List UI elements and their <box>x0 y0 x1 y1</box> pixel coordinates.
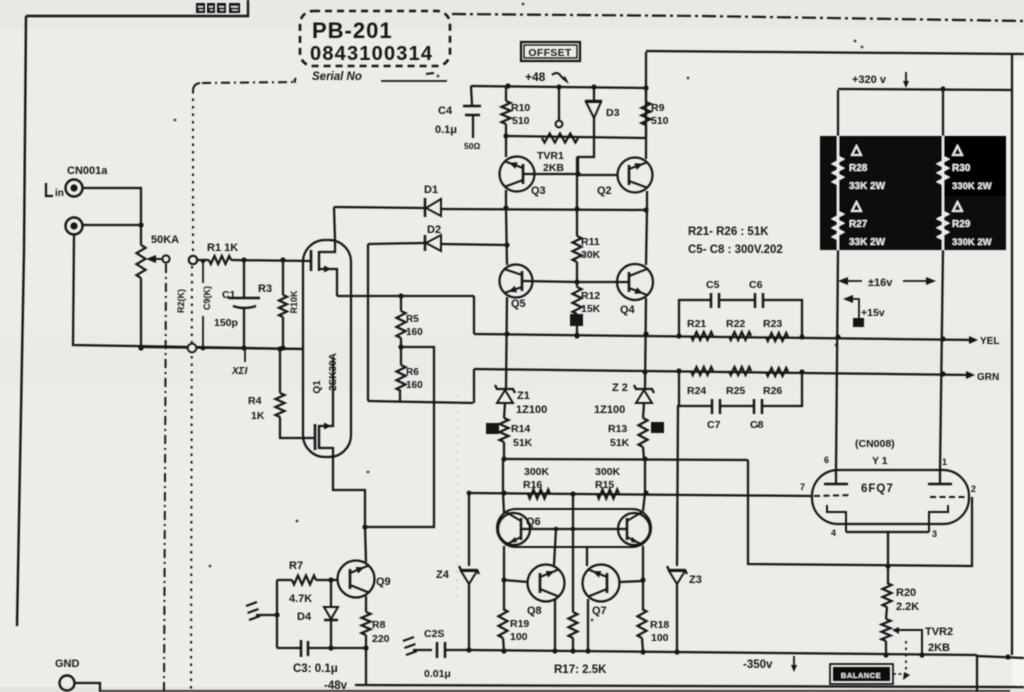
svg-text:Q9: Q9 <box>376 576 391 588</box>
svg-text:33K 2W: 33K 2W <box>849 181 886 192</box>
svg-text:R15: R15 <box>595 479 614 491</box>
zener Z3 <box>667 405 702 655</box>
zener Z2 <box>594 382 654 418</box>
wire input jacks to pot <box>83 188 144 245</box>
resistor R12 15K <box>570 287 601 337</box>
diode D2 <box>368 224 510 251</box>
label -48V <box>324 680 348 692</box>
wire input ground return <box>73 235 304 349</box>
wire Q2 emitter <box>643 191 648 213</box>
svg-text:Y 1: Y 1 <box>872 455 888 467</box>
label R21-R26 <box>688 226 783 256</box>
svg-text:R23: R23 <box>763 318 782 330</box>
label ±16v <box>838 277 936 289</box>
resistor R19 100 <box>499 580 530 654</box>
wire top dash-dot boundary <box>452 14 1024 21</box>
svg-text:Z3: Z3 <box>689 574 702 586</box>
svg-text:3: 3 <box>932 529 937 539</box>
svg-text:4: 4 <box>831 528 836 538</box>
wire tube plate left <box>836 250 838 470</box>
resistor R18 100 <box>638 581 670 655</box>
wire R28 branch <box>837 90 839 250</box>
high-voltage resistor block <box>820 136 1006 250</box>
wire TVR2 wiper dotted <box>903 641 910 680</box>
node pot wiper (open circle on signal wire) <box>189 256 209 264</box>
svg-text:R29: R29 <box>952 219 971 230</box>
wire Q6 base rail drop <box>554 527 559 565</box>
svg-text:C2S: C2S <box>424 628 444 640</box>
svg-text:TVR2: TVR2 <box>925 626 953 638</box>
resistor R11 30K <box>573 236 601 287</box>
wire Q4 emitter to Z2 <box>642 298 648 388</box>
svg-text:Q1: Q1 <box>312 380 323 394</box>
wire tube plate right <box>940 250 943 470</box>
svg-text:300K: 300K <box>595 466 621 478</box>
transistor Q7 <box>583 565 620 618</box>
shield boundary (dash-dot, pot wiper) <box>191 78 296 692</box>
svg-text:330K 2W: 330K 2W <box>952 237 992 248</box>
svg-text:R7: R7 <box>289 560 303 572</box>
svg-text:R20: R20 <box>896 587 916 599</box>
resistor R22 <box>726 318 751 340</box>
wire Q8 emitter <box>552 599 557 654</box>
FET Q1 2SK30A (dual) <box>303 240 351 457</box>
resistor R27 33K 2W <box>834 202 886 248</box>
svg-text:R25: R25 <box>726 385 745 397</box>
svg-text:YEL: YEL <box>980 336 999 347</box>
wire divider drop <box>501 459 506 513</box>
svg-text:R6: R6 <box>406 367 419 378</box>
svg-text:C8: C8 <box>750 419 764 431</box>
svg-text:C9(K): C9(K) <box>202 286 212 310</box>
svg-text:Q3: Q3 <box>531 185 546 197</box>
svg-text:50KA: 50KA <box>151 234 179 246</box>
wire Q5 emitter to Z1 <box>504 297 509 388</box>
connector CN001a <box>46 165 108 235</box>
svg-text:510: 510 <box>512 115 530 127</box>
wire Q4 base <box>577 281 628 283</box>
resistor R9 510 <box>642 88 669 138</box>
wire D3 to bases <box>524 138 618 177</box>
svg-text:R13: R13 <box>608 423 627 435</box>
svg-text:D3: D3 <box>606 107 620 119</box>
svg-text:XΣI: XΣI <box>231 366 248 377</box>
wire R30 branch <box>942 90 944 250</box>
wire emitter rail <box>334 207 647 210</box>
svg-text:CN001a: CN001a <box>67 165 108 177</box>
svg-text:2: 2 <box>971 484 976 494</box>
svg-text:C5: C5 <box>706 279 720 291</box>
resistor R28 33K 2W <box>834 146 886 192</box>
label OFFSET box <box>521 42 580 61</box>
wire R6 bottom / GRN tie <box>368 369 474 403</box>
capacitor C5 <box>679 279 755 336</box>
resistor R4 1K <box>248 346 315 438</box>
svg-text:R9: R9 <box>651 102 665 114</box>
wire Q6 right emitter <box>640 546 645 583</box>
svg-text:6: 6 <box>824 455 829 465</box>
capacitor C3 0.1u <box>277 640 366 675</box>
capacitor C7 <box>679 371 754 431</box>
resistor R10 510 <box>502 86 531 136</box>
svg-text:Z 2: Z 2 <box>612 382 628 394</box>
svg-text:in: in <box>55 188 64 199</box>
resistor R30 330K 2W <box>939 146 992 192</box>
wire +320V rail <box>838 86 1012 91</box>
wire -48V rail <box>355 685 1024 687</box>
wire Q5 collector <box>506 208 507 265</box>
wire C3 node to -48V rail <box>365 648 367 686</box>
wire Q1 upper drain to emitter rail <box>334 207 335 240</box>
svg-text:510: 510 <box>651 115 669 127</box>
svg-text:TVR1: TVR1 <box>537 150 564 162</box>
wire tube cathodes <box>846 532 929 583</box>
svg-text:R21- R26 : 51K: R21- R26 : 51K <box>688 226 769 238</box>
svg-text:2KB: 2KB <box>928 642 950 654</box>
dual transistor Q6 <box>497 509 651 547</box>
resistor R16 300K <box>523 466 550 499</box>
svg-text:GRN: GRN <box>977 372 999 383</box>
wire Q8 base <box>504 580 528 582</box>
resistor R13 51K <box>608 418 664 462</box>
svg-text:C6: C6 <box>749 279 763 291</box>
svg-text:R21: R21 <box>687 318 706 330</box>
svg-text:R4: R4 <box>248 395 262 407</box>
resistor R14 51K <box>486 418 533 462</box>
svg-text:300K: 300K <box>524 466 550 478</box>
wire R17 drop <box>570 491 575 612</box>
svg-text:R24: R24 <box>687 385 706 397</box>
svg-text:150p: 150p <box>214 317 238 329</box>
svg-text:R10K: R10K <box>289 290 299 314</box>
wire R14/R13 node <box>504 459 748 460</box>
svg-text:R17: 2.5K: R17: 2.5K <box>554 664 607 676</box>
capacitor C9 (rotated label) <box>202 286 212 310</box>
wire top line <box>646 51 1024 54</box>
svg-text:51K: 51K <box>513 437 533 449</box>
transistor Q4 <box>617 264 653 316</box>
crossed-out stub <box>231 349 248 377</box>
svg-text:Z1: Z1 <box>517 390 530 402</box>
svg-text:1Z100: 1Z100 <box>594 404 625 416</box>
capacitor C8 <box>750 371 802 431</box>
wire bias divider <box>574 157 579 236</box>
wire Q7 emitter <box>585 599 590 654</box>
svg-text:50Ω: 50Ω <box>464 141 480 151</box>
svg-text:R2(K): R2(K) <box>176 289 186 313</box>
test point +15v <box>843 295 885 327</box>
wire Q1 lower drain loop to R5/R6 tap <box>333 347 434 530</box>
svg-text:Q4: Q4 <box>620 304 636 316</box>
connector GND <box>55 658 100 692</box>
capacitor C1 150p <box>214 257 260 350</box>
wire right edge drop <box>1005 54 1012 660</box>
svg-text:Q8: Q8 <box>527 605 542 617</box>
svg-text:0.01μ: 0.01μ <box>424 668 451 680</box>
svg-text:R14: R14 <box>511 423 530 435</box>
svg-text:+48: +48 <box>525 70 546 84</box>
svg-text:R30: R30 <box>952 163 971 174</box>
wire to tube grid 7 <box>469 493 812 496</box>
svg-text:7: 7 <box>800 482 805 492</box>
svg-text:+320 v: +320 v <box>852 74 887 86</box>
svg-text:C1: C1 <box>222 289 236 301</box>
svg-text:GND: GND <box>55 658 80 670</box>
svg-text:R26: R26 <box>763 385 782 397</box>
resistor R20 2.2K <box>883 583 920 619</box>
tube Y1 6FQ7 <box>800 438 976 539</box>
svg-text:2.2K: 2.2K <box>896 601 919 613</box>
resistor R21 <box>687 318 713 340</box>
svg-text:R5: R5 <box>406 314 419 325</box>
transistor Q2 <box>597 158 653 198</box>
svg-text:6FQ7: 6FQ7 <box>861 483 894 495</box>
svg-text:Q5: Q5 <box>511 298 526 310</box>
svg-text:0843100314: 0843100314 <box>310 43 433 65</box>
wire input low rail <box>141 344 304 352</box>
zener Z1 <box>495 385 547 418</box>
wire Q1 source drop <box>473 296 475 334</box>
wire +48V rail <box>471 83 646 89</box>
svg-text:PB-201: PB-201 <box>312 18 393 43</box>
svg-text:D2: D2 <box>427 224 441 236</box>
svg-text:R10: R10 <box>511 102 530 114</box>
wire YEL <box>474 333 975 341</box>
svg-text:100: 100 <box>510 631 528 643</box>
svg-text:100: 100 <box>651 632 669 644</box>
diode D3 <box>585 87 620 137</box>
chassis ground (C2) <box>403 637 432 655</box>
wire Q7 base <box>620 581 643 582</box>
trimmer TVR2 2KB <box>882 619 954 658</box>
transistor Q3 <box>500 157 546 198</box>
net GRN <box>966 371 999 383</box>
svg-text:Q2: Q2 <box>597 185 612 197</box>
svg-text:160: 160 <box>406 327 423 338</box>
wire Q3 emitter <box>503 190 508 211</box>
svg-text:4.7K: 4.7K <box>289 593 312 605</box>
svg-text:R11: R11 <box>581 236 600 248</box>
svg-text:R22: R22 <box>726 318 745 330</box>
resistor R25 <box>726 367 751 397</box>
wire rail step <box>977 655 1024 692</box>
wire Q9 collector <box>365 527 366 562</box>
svg-text:30K: 30K <box>581 249 601 261</box>
svg-text:D4: D4 <box>297 611 312 623</box>
svg-text:1K: 1K <box>251 410 265 422</box>
label BALANCE <box>830 664 903 684</box>
resistor R29 330K 2W <box>939 202 992 248</box>
svg-text:R27: R27 <box>849 219 868 230</box>
svg-text:Q7: Q7 <box>592 605 607 617</box>
svg-text:C4: C4 <box>438 105 453 117</box>
svg-text:OFFSET: OFFSET <box>528 47 572 59</box>
svg-text:160: 160 <box>406 380 423 391</box>
svg-text:D1: D1 <box>424 184 438 196</box>
svg-text:R18: R18 <box>650 619 669 631</box>
label -350V <box>743 656 797 672</box>
resistor R24 <box>687 367 713 397</box>
capacitor C2 0.01u <box>424 628 469 680</box>
resistor R6 160 <box>397 338 424 402</box>
net +48V <box>525 70 569 84</box>
resistor R26 <box>763 368 788 397</box>
resistor R2 (rotated label) <box>176 259 205 350</box>
resistor R3 <box>258 257 299 350</box>
svg-text:C5- C8 : 300V.202: C5- C8 : 300V.202 <box>688 244 783 256</box>
svg-text:R28: R28 <box>849 163 868 174</box>
wire Q2 collector to top line <box>643 52 648 159</box>
resistor R5 160 <box>397 293 424 338</box>
resistor R7 4.7K <box>277 560 338 605</box>
svg-text:1Z100: 1Z100 <box>516 404 547 416</box>
wire Q6 right collector <box>643 459 649 511</box>
svg-text:220: 220 <box>372 633 390 645</box>
resistor R17 2.5K <box>554 612 607 676</box>
svg-text:330K 2W: 330K 2W <box>952 181 992 192</box>
wire GRN <box>474 368 972 376</box>
wire TVR1 bottom <box>503 133 646 138</box>
resistor R15 300K <box>595 466 621 499</box>
resistor R23 <box>763 318 788 341</box>
potentiometer VR 50KA <box>137 234 180 351</box>
wire Q1 upper source <box>337 295 474 297</box>
svg-text:C7: C7 <box>707 419 721 431</box>
wire D2 branch <box>367 244 369 401</box>
svg-text:33K 2W: 33K 2W <box>849 237 886 248</box>
svg-text:51K: 51K <box>610 437 630 449</box>
trimmer TVR1 2KB <box>537 87 578 174</box>
svg-text:(CN008): (CN008) <box>855 438 895 450</box>
svg-text:R3: R3 <box>258 283 272 295</box>
diode D1 <box>424 184 441 217</box>
chassis ground (R7) <box>246 602 280 620</box>
svg-text:R8: R8 <box>372 619 386 631</box>
resistor R1 1K <box>207 242 311 264</box>
zener Z4 <box>436 491 479 653</box>
svg-text:1: 1 <box>942 457 947 467</box>
svg-text:R19: R19 <box>510 618 529 630</box>
transistor Q9 <box>338 561 391 598</box>
svg-text:15K: 15K <box>581 303 601 315</box>
svg-text:0.1μ: 0.1μ <box>435 124 457 136</box>
transistor Q8 <box>527 565 565 618</box>
wire Q4 collector <box>646 210 647 265</box>
svg-text:-350v: -350v <box>743 659 773 671</box>
svg-text:±16v: ±16v <box>868 277 893 289</box>
shield boundary 2 (dash-dot from wiper) <box>164 264 166 692</box>
wire Q5 base <box>523 281 577 282</box>
wire -350V rail <box>469 650 977 655</box>
wire Q7 collector <box>586 547 588 566</box>
svg-text:BALANCE: BALANCE <box>841 671 881 680</box>
svg-text:C3: 0.1μ: C3: 0.1μ <box>293 663 338 675</box>
svg-text:R12: R12 <box>581 290 600 302</box>
wire to tube grid 2 <box>748 460 972 566</box>
resistor R8 220 <box>362 596 390 651</box>
svg-text:+15v: +15v <box>861 307 885 319</box>
svg-text:R1 1K: R1 1K <box>207 242 238 254</box>
svg-text:-48v: -48v <box>324 680 348 692</box>
svg-text:2KB: 2KB <box>543 162 564 174</box>
label PB-201 serial-number box <box>300 11 450 83</box>
wire Q3 collector <box>505 136 507 157</box>
diode D4 <box>297 580 338 651</box>
wire Q6 left emitter <box>501 546 506 583</box>
wire R7 left leg <box>276 580 278 648</box>
capacitor C4 0.1u <box>435 86 481 151</box>
transistor Q5 <box>500 265 533 311</box>
svg-text:Serial No: Serial No <box>312 71 362 83</box>
net YEL <box>969 336 999 347</box>
svg-text:Z4: Z4 <box>436 569 450 581</box>
net +320V <box>852 72 909 88</box>
capacitor C6 <box>749 279 802 336</box>
